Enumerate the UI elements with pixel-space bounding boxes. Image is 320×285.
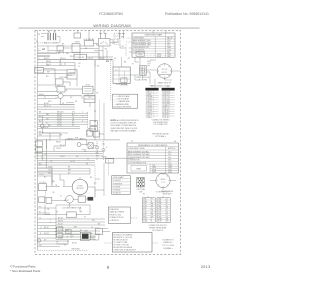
- svg-text:15 WH N: 15 WH N: [162, 105, 169, 107]
- oven temp chart nested cell box: [136, 52, 145, 57]
- svg-text:LABEL ALL WIRES: LABEL ALL WIRES: [109, 211, 124, 214]
- svg-text:NOMINAL ±: NOMINAL ±: [163, 247, 173, 250]
- oven temp chart table border: [132, 33, 175, 57]
- svg-text:PARALLEL: PARALLEL: [164, 241, 173, 244]
- svg-text:GY: GY: [64, 244, 67, 246]
- svg-text:4 BU: 4 BU: [158, 205, 161, 207]
- svg-text:16.1: 16.1: [168, 157, 171, 159]
- svg-text:HI LO: HI LO: [86, 84, 91, 86]
- svg-text:L2: L2: [39, 217, 41, 219]
- svg-text:2013: 2013: [201, 265, 211, 269]
- svg-text:OR: OR: [52, 192, 55, 194]
- wire cluster mid: [38, 60, 96, 140]
- svg-text:F4 RELAY: F4 RELAY: [113, 189, 122, 192]
- svg-text:1852: 1852: [167, 56, 171, 58]
- svg-text:or: or: [42, 47, 46, 51]
- density labels pack A: [46, 44, 154, 87]
- svg-text:16 RD L2: 16 RD L2: [162, 108, 169, 110]
- thermal switch S3 symbol: [118, 33, 121, 38]
- svg-text:1: 1: [39, 49, 40, 51]
- svg-text:7 YL: 7 YL: [158, 212, 161, 214]
- density wires pack A (top mid): [38, 44, 156, 88]
- svg-text:OVEN TEMP CHART: OVEN TEMP CHART: [144, 34, 163, 37]
- scatter labels pack C: [39, 49, 105, 247]
- svg-text:CONV MOTOR: CONV MOTOR: [128, 160, 140, 162]
- svg-text:9 PK: 9 PK: [143, 216, 146, 218]
- legend box text: [113, 233, 136, 251]
- svg-text:L1: L1: [40, 227, 42, 229]
- svg-text:N: N: [66, 90, 68, 92]
- svg-text:MOV: MOV: [161, 179, 166, 181]
- svg-text:MTR: MTR: [55, 98, 59, 100]
- latch motor box: [67, 70, 77, 79]
- svg-text:RD-18: RD-18: [44, 233, 49, 235]
- svg-text:BR: BR: [124, 62, 127, 64]
- left side component stack: [38, 160, 94, 250]
- svg-text:EL: EL: [166, 203, 168, 205]
- left pair boxes mid: [36, 141, 43, 153]
- svg-text:··· HARNESS WIRE: ··· HARNESS WIRE: [114, 103, 130, 106]
- svg-text:BU: BU: [44, 176, 47, 178]
- svg-text:LT: LT: [151, 208, 153, 210]
- svg-text:BAKE ELEMENT (240 VAC): BAKE ELEMENT (240 VAC): [128, 150, 150, 153]
- svg-text:10 VT: 10 VT: [143, 219, 147, 221]
- svg-text:4 3 2 1: 4 3 2 1: [162, 72, 168, 74]
- svg-text:L2: L2: [60, 64, 62, 66]
- svg-text:BU-18: BU-18: [44, 103, 49, 105]
- svg-text:OVEN: OVEN: [138, 54, 143, 56]
- svg-text:3: 3: [82, 121, 83, 123]
- svg-text:ALL WIRING SHOWN WITH: ALL WIRING SHOWN WITH: [117, 119, 139, 122]
- oven temp chart row labels: [133, 36, 173, 58]
- top tiny labels row2: [48, 31, 150, 66]
- svg-text:CODE CHART: CODE CHART: [113, 176, 124, 179]
- svg-text:OR-16: OR-16: [57, 116, 62, 118]
- svg-text:P1 CONN: P1 CONN: [139, 79, 148, 81]
- svg-text:OR: OR: [66, 236, 69, 238]
- wire row 2: [38, 70, 76, 73]
- svg-text:P5: P5: [147, 61, 149, 63]
- power block outline: [80, 232, 90, 240]
- oven light assembly box: [72, 44, 80, 52]
- svg-text:PK-18: PK-18: [44, 127, 49, 129]
- wire long horizontal: [35, 139, 120, 141]
- switch block ticks: [114, 36, 120, 42]
- svg-text:13 GY SN: 13 GY SN: [162, 101, 170, 103]
- svg-text:P2: P2: [143, 194, 145, 196]
- pin chart right block: [157, 198, 170, 223]
- svg-text:CONV ELEMENT (240 VAC): CONV ELEMENT (240 VAC): [128, 156, 150, 159]
- svg-text:17 BK HT: 17 BK HT: [162, 110, 169, 112]
- svg-text:11 YL CV: 11 YL CV: [162, 96, 170, 98]
- svg-text:RD: RD: [94, 183, 97, 185]
- svg-text:WIRING DIAGRAM: WIRING DIAGRAM: [93, 23, 130, 28]
- svg-text:PK: PK: [80, 211, 83, 213]
- transformer T1 cluster: [55, 76, 95, 103]
- svg-text:6 TN: 6 TN: [158, 210, 161, 212]
- svg-text:MTR: MTR: [48, 101, 52, 103]
- svg-text:MAY VARY BY MODEL NUMBER.: MAY VARY BY MODEL NUMBER.: [111, 129, 137, 132]
- svg-text:DOOR CLOSED AND OVEN OFF.: DOOR CLOSED AND OVEN OFF.: [111, 122, 137, 125]
- top-left small wires: [38, 34, 61, 51]
- svg-text:DLB RELAY: DLB RELAY: [84, 38, 96, 41]
- svg-text:F9 LATCH: F9 LATCH: [113, 192, 122, 195]
- svg-text:450F: 450F: [152, 172, 156, 174]
- coil chain components: [95, 141, 105, 160]
- convection motor oval: [72, 177, 88, 197]
- svg-text:CONTROLS.: CONTROLS.: [109, 220, 119, 222]
- svg-text:5 BU: 5 BU: [143, 208, 146, 210]
- density bus left labels: [39, 112, 50, 125]
- svg-text:CONV MOTOR: CONV MOTOR: [133, 52, 145, 54]
- thermal switch S2 symbol: [104, 33, 107, 38]
- svg-text:4 OR: 4 OR: [143, 205, 147, 207]
- svg-text:OR-16: OR-16: [48, 167, 53, 169]
- svg-text:BK: BK: [62, 43, 65, 45]
- svg-text:GY: GY: [56, 211, 59, 213]
- svg-text:RD-14: RD-14: [70, 56, 75, 58]
- wire triple horizontals: [36, 151, 135, 165]
- svg-text:BK-12: BK-12: [100, 58, 105, 60]
- oven temp chart rows: [132, 41, 175, 55]
- top border drop stubs: [49, 31, 166, 41]
- svg-text:OR-16: OR-16: [60, 156, 65, 158]
- svg-text:YL-18: YL-18: [57, 121, 61, 123]
- svg-text:VT: VT: [39, 211, 41, 213]
- svg-text:10 BU CF: 10 BU CF: [162, 94, 169, 96]
- svg-text:BK-12: BK-12: [44, 58, 49, 60]
- svg-text:GY: GY: [70, 97, 73, 99]
- svg-text:P1: P1: [151, 199, 153, 201]
- wire main horizontal L1: [38, 59, 114, 61]
- top extra dashes: [38, 38, 181, 80]
- svg-text:1: 1: [50, 219, 51, 221]
- svg-text:RL: RL: [166, 205, 168, 207]
- component grid J2: [139, 66, 146, 76]
- oven temp chart header rule: [132, 36, 175, 39]
- svg-text:P3: P3: [114, 58, 116, 60]
- svg-text:GY: GY: [128, 58, 131, 60]
- svg-text:TN: TN: [47, 209, 50, 211]
- svg-text:OR-14: OR-14: [88, 58, 93, 60]
- svg-text:N: N: [151, 201, 152, 203]
- wire top cluster: [38, 42, 119, 46]
- svg-text:RD: RD: [97, 65, 100, 67]
- oven sensor box: [74, 33, 81, 38]
- connector P3 nested box: [121, 78, 127, 83]
- svg-text:YL-18: YL-18: [48, 169, 52, 171]
- bottom junction dots: [55, 110, 95, 241]
- svg-text:11 VT: 11 VT: [158, 221, 162, 223]
- svg-text:MOTOR: MOTOR: [76, 188, 84, 190]
- svg-text:GY-18: GY-18: [64, 200, 69, 202]
- svg-text:2: 2: [82, 116, 83, 118]
- density wires pack B (mid column verticals): [38, 100, 105, 222]
- relay K2 inner contact: [100, 42, 108, 45]
- svg-text:2: 2: [50, 222, 51, 224]
- svg-text:GY-18: GY-18: [70, 161, 75, 163]
- svg-text:19 BU RL: 19 BU RL: [162, 115, 169, 117]
- svg-text:- - - LOW VOLTAGE: - - - LOW VOLTAGE: [114, 98, 130, 101]
- svg-text:OR: OR: [78, 63, 81, 65]
- switch block dashed: [114, 33, 120, 44]
- inline component box pair: [105, 159, 113, 163]
- svg-text:A CAUTION:: A CAUTION:: [109, 208, 119, 211]
- power block (dark): [82, 234, 89, 239]
- svg-text:5 OR: 5 OR: [158, 208, 162, 210]
- svg-text:CONV: CONV: [77, 185, 83, 187]
- connector circle P1: [157, 64, 172, 80]
- svg-text:CF: CF: [166, 212, 168, 214]
- svg-text:P3: P3: [106, 61, 109, 63]
- svg-text:BK: BK: [60, 134, 63, 136]
- svg-text:F3 OPEN: F3 OPEN: [113, 186, 121, 188]
- svg-text:F2 SENSOR: F2 SENSOR: [113, 183, 123, 185]
- latch motor inner: [69, 72, 76, 75]
- svg-text:TN-18: TN-18: [57, 123, 62, 125]
- svg-text:SP: SP: [166, 208, 168, 210]
- thermal switch S1 symbol: [99, 33, 102, 38]
- wire color legend rows: [114, 95, 132, 109]
- svg-text:5 BU LT: 5 BU LT: [146, 101, 152, 103]
- svg-text:OR-18: OR-18: [58, 226, 63, 228]
- vertical dashed mid bus: [110, 61, 112, 100]
- svg-text:38.5: 38.5: [168, 160, 171, 162]
- svg-text:GY-18: GY-18: [58, 238, 63, 240]
- svg-text:YL: YL: [72, 116, 74, 118]
- wire arrow at main line: [108, 59, 112, 61]
- density table2 surround: [131, 141, 176, 143]
- svg-text:YL: YL: [44, 154, 46, 156]
- svg-text:COOLING FAN MOTOR: COOLING FAN MOTOR: [62, 206, 82, 209]
- surface element LF hatched: [53, 33, 55, 40]
- svg-text:CV: CV: [166, 214, 168, 216]
- wire neutral vertical: [46, 139, 48, 166]
- wire color legend box: [112, 94, 137, 108]
- svg-text:BK-12 L1: BK-12 L1: [44, 105, 51, 107]
- svg-text:8 GY: 8 GY: [143, 214, 146, 216]
- svg-text:11 RD P: 11 RD P: [146, 115, 152, 117]
- svg-text:OPTIONAL ±: OPTIONAL ±: [155, 135, 166, 138]
- svg-text:WH-14: WH-14: [46, 61, 51, 63]
- svg-text:20 YL SP: 20 YL SP: [162, 117, 169, 119]
- svg-text:WH-18: WH-18: [58, 220, 63, 222]
- svg-text:6 YL: 6 YL: [143, 210, 146, 212]
- svg-text:6 YL FN: 6 YL FN: [146, 103, 153, 105]
- bus connector ticks: [86, 112, 88, 135]
- mid area extra wires: [38, 46, 96, 247]
- svg-text:1: 1: [82, 112, 83, 114]
- svg-text:RD-14: RD-14: [60, 58, 65, 60]
- wire L1 vertical bus: [37, 31, 39, 161]
- svg-text:BU-18: BU-18: [72, 242, 77, 244]
- lamp box DT1: [57, 46, 63, 50]
- relay board table body: [145, 91, 174, 119]
- svg-text:2 BK: 2 BK: [158, 201, 161, 203]
- svg-text:YL-18: YL-18: [39, 174, 43, 176]
- svg-text:350F: 350F: [157, 56, 161, 58]
- svg-text:CF: CF: [62, 103, 64, 105]
- motor circle MOV: [156, 173, 170, 187]
- svg-text:8 7 6 5: 8 7 6 5: [162, 69, 168, 71]
- svg-text:1 2 3: 1 2 3: [88, 97, 92, 99]
- svg-text:PK: PK: [75, 101, 78, 103]
- svg-text:HT: HT: [166, 201, 168, 203]
- svg-text:BU: BU: [46, 76, 49, 78]
- svg-text:GROUND: GROUND: [71, 248, 80, 250]
- pin chart left block: [142, 198, 155, 223]
- note paragraph: [111, 119, 140, 132]
- svg-text:BK BLACK WH WHITE: BK BLACK WH WHITE: [114, 106, 132, 109]
- svg-text:1 2 3: 1 2 3: [161, 182, 165, 184]
- density labels pack B: [39, 103, 107, 219]
- svg-text:RD-18: RD-18: [58, 223, 63, 225]
- svg-text:2 WH: 2 WH: [143, 201, 147, 203]
- svg-text:WH: WH: [52, 181, 56, 183]
- svg-text:BR: BR: [151, 205, 154, 207]
- svg-text:P2: P2: [131, 141, 133, 143]
- svg-text:GN: GN: [92, 220, 95, 222]
- svg-text:PRIOR TO DIS-: PRIOR TO DIS-: [109, 214, 121, 216]
- svg-text:—— LINE VOLTAGE: —— LINE VOLTAGE: [114, 95, 131, 98]
- svg-text:L1: L1: [35, 40, 37, 42]
- svg-text:RD-14: RD-14: [57, 114, 62, 116]
- svg-text:TN: TN: [96, 92, 99, 94]
- svg-text:18 OR EL: 18 OR EL: [162, 112, 169, 114]
- svg-text:DR: DR: [151, 216, 154, 218]
- left border pin labels: [35, 40, 37, 42]
- svg-text:OVEN: OVEN: [136, 168, 142, 170]
- terminal block TB1: [35, 67, 43, 73]
- svg-text:C: C: [151, 219, 153, 221]
- svg-text:WH-14: WH-14: [39, 94, 44, 96]
- wire to P3: [80, 52, 113, 67]
- svg-text:CONNECTION OF: CONNECTION OF: [109, 217, 123, 219]
- svg-text:3 WH: 3 WH: [158, 203, 162, 205]
- svg-text:11 GN: 11 GN: [143, 221, 147, 223]
- svg-text:4 OR BR: 4 OR BR: [146, 99, 153, 101]
- svg-text:SR: SR: [151, 214, 154, 216]
- svg-text:OR: OR: [105, 48, 108, 50]
- element note block: [162, 239, 175, 249]
- resistance chart grid: [127, 147, 179, 173]
- svg-text:2052: 2052: [168, 172, 172, 174]
- svg-text:YL-18: YL-18: [58, 232, 62, 234]
- svg-text:VT: VT: [72, 125, 74, 127]
- relay K2 box: [98, 39, 110, 46]
- svg-text:2: 2: [39, 58, 40, 60]
- node dashes to surface elements: [38, 42, 48, 44]
- svg-text:—·— CHASSIS GND: —·— CHASSIS GND: [114, 100, 131, 103]
- svg-text:YL: YL: [91, 227, 93, 229]
- left chain wire: [41, 115, 43, 133]
- svg-text:P-LOCK: P-LOCK: [39, 182, 46, 184]
- transformer T2 cluster: [56, 128, 99, 150]
- door switch box: [74, 54, 86, 59]
- bottom small component row boxes: [57, 227, 72, 237]
- svg-text:WH-14: WH-14: [56, 142, 61, 144]
- svg-text:BROIL ELEMENT (240 VAC): BROIL ELEMENT (240 VAC): [128, 153, 150, 156]
- mid area tiny labels: [39, 58, 100, 247]
- svg-text:BK-18: BK-18: [58, 217, 63, 219]
- svg-text:ELEMENT IN: ELEMENT IN: [163, 239, 174, 241]
- svg-text:BK-12: BK-12: [68, 138, 73, 140]
- svg-text:1 BK L1: 1 BK L1: [146, 92, 152, 94]
- svg-text:1 BK: 1 BK: [143, 199, 146, 201]
- svg-text:OF CONSOLE: OF CONSOLE: [152, 230, 164, 232]
- svg-text:LATCH: LATCH: [67, 74, 73, 77]
- code legend table mid: [112, 176, 131, 195]
- svg-text:19.4: 19.4: [168, 151, 171, 153]
- right column extra ticks: [104, 60, 176, 243]
- resistance chart text: [128, 147, 177, 174]
- svg-text:P4: P4: [174, 141, 176, 143]
- svg-text:TN: TN: [56, 241, 59, 243]
- svg-text:BK: BK: [85, 48, 88, 50]
- svg-text:LO: LO: [54, 31, 57, 33]
- svg-text:P1: P1: [132, 64, 134, 66]
- svg-text:P5: P5: [148, 64, 150, 66]
- svg-text:COOLING FAN MOTOR: COOLING FAN MOTOR: [128, 162, 147, 165]
- harness wire fan: [56, 219, 105, 240]
- svg-text:OR-16: OR-16: [56, 148, 61, 150]
- svg-text:3 RD: 3 RD: [143, 203, 147, 205]
- mid vertical dashed: [107, 158, 109, 176]
- small junction box: [96, 229, 103, 235]
- svg-text:9 OR DLB: 9 OR DLB: [162, 92, 169, 94]
- svg-text:2 WH N: 2 WH N: [146, 94, 152, 96]
- harness wire labels: [40, 217, 63, 240]
- notice box mid2: [108, 207, 130, 223]
- relay board table header left (black): [145, 88, 158, 91]
- svg-text:2: 2: [97, 151, 98, 153]
- bottom rows extra labels: [44, 227, 93, 245]
- chassis dashed border: [35, 30, 181, 254]
- relay board table body text: [146, 92, 170, 119]
- thermal switch S4 symbol: [122, 33, 125, 38]
- svg-text:P9: P9: [38, 34, 40, 36]
- svg-text:SN: SN: [166, 219, 168, 221]
- svg-text:12 BK G: 12 BK G: [146, 117, 153, 119]
- svg-text:TERM: TERM: [36, 70, 42, 72]
- svg-text:WH-14 N: WH-14 N: [57, 112, 64, 114]
- top-left tiny labels: [38, 34, 65, 45]
- svg-text:1: 1: [97, 143, 98, 145]
- oven temp chart column divider: [155, 33, 165, 57]
- svg-text:WH: WH: [66, 53, 70, 55]
- clock connector grid block: [137, 177, 144, 187]
- svg-text:* WIRE SIZE 18 GA UNLESS: * WIRE SIZE 18 GA UNLESS: [113, 248, 136, 251]
- svg-text:1 2: 1 2: [115, 69, 118, 71]
- bus end cluster boxes: [90, 121, 97, 132]
- svg-text:GY-18: GY-18: [57, 125, 62, 127]
- svg-text:8 PK: 8 PK: [158, 214, 161, 216]
- svg-text:YL: YL: [78, 66, 80, 68]
- svg-text:L1 TO L2 240V: L1 TO L2 240V: [162, 245, 175, 247]
- svg-text:10 BN: 10 BN: [158, 219, 162, 221]
- legend box bottom: [112, 233, 152, 252]
- svg-text:FCDN60GF5N: FCDN60GF5N: [99, 12, 123, 16]
- svg-text:14 PK SW: 14 PK SW: [162, 103, 170, 105]
- svg-text:8 GY SR: 8 GY SR: [146, 108, 153, 110]
- svg-text:FN: FN: [151, 210, 153, 212]
- svg-text:7 TN MT: 7 TN MT: [146, 105, 152, 107]
- wire bus rows left: [38, 107, 87, 129]
- svg-text:9 GY: 9 GY: [158, 216, 161, 218]
- bottom cluster ties: [68, 232, 110, 245]
- resistance chart table border: [127, 143, 179, 173]
- relay K1 box: [84, 41, 94, 46]
